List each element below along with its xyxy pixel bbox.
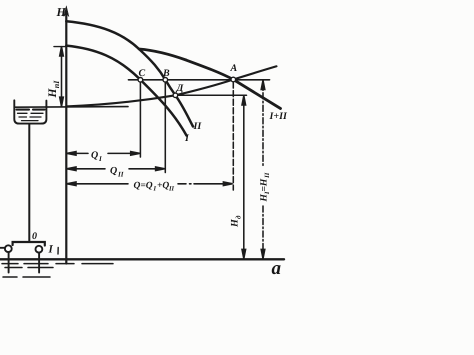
dropper from B [164,82,166,173]
sump water dashes row3 [3,276,50,278]
svg-text:B: B [162,68,170,79]
combined curve I+II [139,49,281,109]
tank bottom [18,123,43,125]
point A [231,77,236,82]
svg-text:Q: Q [110,166,117,177]
level line through D [175,94,246,96]
svg-text:I: I [98,155,102,163]
svg-text:II: II [168,186,175,193]
H axis arrowhead [64,6,69,17]
pump curve II [66,21,193,126]
svg-text:Q: Q [91,150,98,161]
svg-text:I: I [153,186,157,193]
svg-text:II: II [117,171,124,179]
pump I circle (right) [36,246,43,253]
label H_п (rotated) [47,80,61,99]
Q axis (x-axis / ground line) [0,258,284,260]
dropper from C [139,82,141,157]
water level line from tank to plot [14,106,128,109]
svg-text:пI: пI [52,80,61,88]
dimension H_I = H_II (vertical, dash-dot) [261,80,265,258]
tank left wall [14,100,19,123]
svg-text:I+II: I+II [269,111,288,122]
svg-text:=H: =H [259,178,269,191]
H axis [65,11,67,264]
pump manifold [13,242,45,246]
sump water dashes row2 [5,267,53,269]
pump curve I [66,46,186,136]
svg-text:C: C [139,68,146,79]
svg-text:Q=Q: Q=Q [134,181,153,191]
svg-text:I: I [48,244,54,256]
tank water dashes row1 [18,112,44,114]
system (pipeline) curve [66,66,276,106]
point D [173,93,178,98]
svg-text:H: H [56,5,67,19]
left pump downpipe [8,252,10,272]
point B [163,78,168,83]
level line H_I = H_II through C B A [129,79,270,81]
tank water dashes row3 [22,120,39,122]
dimension H_Д (vertical, solid) [242,96,246,259]
svg-text:0: 0 [32,231,37,242]
dimension Q_II [66,167,165,171]
pump II circle (left) [5,245,12,252]
dimension Q_I [66,152,140,156]
dropper from A (dashed) [232,82,234,190]
right pump downpipe [38,253,40,273]
label H_I = H_II (rotated) [259,172,271,202]
small tick near axis base [57,248,59,255]
svg-text:A: A [230,63,238,74]
tank right wall [42,101,47,124]
dimension Q = Q_I + Q_II [66,182,232,186]
sump water dashes row1 [2,263,113,265]
dimension H_п (left vertical) [60,47,64,107]
point C [138,78,143,83]
svg-text:д: д [235,215,243,219]
tick at pump I shutoff level [54,46,66,48]
svg-text:+Q: +Q [157,181,169,191]
tank water surface marks [17,109,45,111]
svg-text:II: II [193,121,203,132]
svg-text:Д: Д [176,83,185,94]
suction pipe from tank to pumps [28,125,30,242]
label H_Д (rotated) [230,215,243,228]
tank water dashes row2 [19,116,41,118]
svg-text:I: I [184,133,190,144]
left pump suction stub [0,247,5,249]
svg-text:a: a [272,258,282,279]
svg-text:II: II [264,172,271,179]
